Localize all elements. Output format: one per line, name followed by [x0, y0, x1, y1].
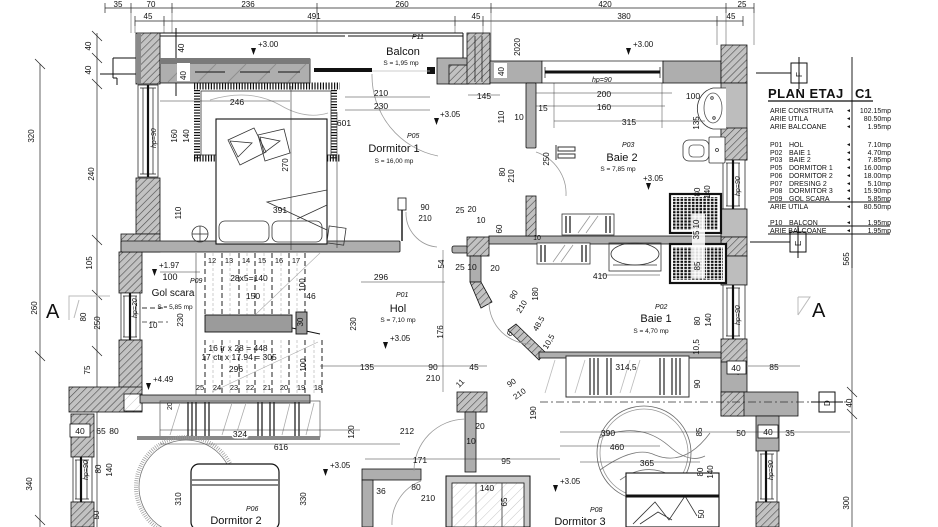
- svg-text:20: 20: [280, 383, 288, 392]
- svg-text:hp=90: hp=90: [735, 305, 742, 325]
- svg-text:10: 10: [533, 235, 541, 242]
- right wall mid: [721, 209, 747, 237]
- svg-text:80: 80: [109, 426, 119, 436]
- svg-text:90: 90: [693, 379, 702, 388]
- svg-text:50: 50: [736, 428, 746, 438]
- svg-text:10: 10: [514, 112, 524, 122]
- svg-text:46: 46: [306, 291, 316, 301]
- baie2 door swing: [536, 152, 566, 196]
- svg-text:601: 601: [337, 118, 351, 128]
- svg-text:100: 100: [686, 91, 700, 101]
- dormitor1 rug comb border: [194, 86, 340, 160]
- LEGEND: [768, 57, 891, 268]
- svg-text:85: 85: [769, 362, 779, 372]
- svg-text:18: 18: [314, 383, 322, 392]
- section box F: [756, 57, 807, 89]
- svg-text:80: 80: [94, 464, 103, 473]
- svg-text:365: 365: [640, 458, 654, 468]
- svg-text:110: 110: [174, 206, 183, 219]
- svg-text:102.15mp: 102.15mp: [860, 108, 891, 115]
- svg-text:25: 25: [738, 0, 747, 9]
- svg-text:17: 17: [292, 256, 300, 265]
- svg-text:E: E: [794, 241, 803, 246]
- svg-text:40: 40: [177, 43, 186, 52]
- svg-text:80.50mp: 80.50mp: [864, 204, 891, 211]
- bed dormitor1: [216, 119, 327, 244]
- svg-text:250: 250: [542, 152, 551, 166]
- svg-text:P03: P03: [770, 157, 783, 164]
- svg-text:◄: ◄: [846, 142, 851, 148]
- dormitor1 door swing: [406, 212, 437, 247]
- svg-text:70: 70: [147, 0, 156, 9]
- svg-text:+4.49: +4.49: [153, 375, 174, 384]
- svg-text:315: 315: [622, 117, 636, 127]
- section box E: [750, 226, 806, 258]
- svg-text:95: 95: [501, 456, 511, 466]
- svg-text:40: 40: [75, 426, 85, 436]
- stair landing: [205, 315, 292, 332]
- svg-text:◄: ◄: [846, 196, 851, 202]
- svg-text:210: 210: [421, 493, 435, 503]
- svg-text:15: 15: [538, 103, 548, 113]
- svg-text:314,5: 314,5: [615, 362, 637, 372]
- svg-text:S = 7,85 mp: S = 7,85 mp: [600, 166, 636, 173]
- dormitor2 door swing: [392, 481, 421, 525]
- dormitor3 circle fan: [597, 406, 710, 500]
- svg-text:hp=90: hp=90: [151, 128, 158, 148]
- wall corner block left: [121, 234, 160, 252]
- right wall lower: [721, 339, 747, 362]
- svg-text:40: 40: [731, 363, 741, 373]
- corridor wall stub vertical: [457, 392, 487, 412]
- svg-text:35: 35: [692, 230, 701, 239]
- svg-text:ARIE UTILA: ARIE UTILA: [770, 204, 808, 211]
- svg-text:100: 100: [299, 358, 308, 372]
- svg-text:420: 420: [598, 0, 612, 9]
- FURNITURE: [136, 71, 847, 527]
- interior dim lines: [160, 86, 850, 462]
- svg-text:Baie 1: Baie 1: [640, 313, 671, 325]
- svg-text:80: 80: [693, 187, 702, 196]
- svg-text:◄: ◄: [846, 188, 851, 194]
- svg-text:P01: P01: [770, 142, 783, 149]
- svg-text:20: 20: [475, 421, 485, 431]
- svg-text:250: 250: [93, 316, 102, 330]
- legend rules: [768, 201, 890, 203]
- svg-text:◄: ◄: [846, 165, 851, 171]
- svg-text:380: 380: [617, 12, 631, 21]
- svg-text:160: 160: [170, 129, 179, 143]
- svg-text:hp=90: hp=90: [592, 77, 612, 84]
- DIMS-TOP: [105, 0, 754, 392]
- STAIRS: [137, 253, 322, 440]
- baie2 toilet: [683, 140, 709, 161]
- section box D: [811, 392, 843, 412]
- dims bottom area: [233, 362, 795, 503]
- svg-text:1.95mp: 1.95mp: [868, 124, 891, 131]
- dim row1 line: [105, 7, 754, 9]
- window hp=90 right wall 2: [723, 285, 745, 339]
- svg-text:P02: P02: [770, 150, 783, 157]
- boxed 40 on wall right: [727, 361, 746, 374]
- hall diagonal lower: [508, 324, 545, 360]
- svg-text:19: 19: [297, 383, 305, 392]
- top-right corner pier: [721, 45, 747, 83]
- svg-text:22: 22: [246, 383, 254, 392]
- svg-text:340: 340: [25, 477, 34, 491]
- svg-text:330: 330: [299, 492, 308, 506]
- svg-text:23: 23: [230, 383, 238, 392]
- svg-text:7.85mp: 7.85mp: [868, 157, 891, 164]
- svg-text:80: 80: [696, 467, 705, 476]
- svg-text:+1.97: +1.97: [159, 261, 180, 270]
- svg-text:45: 45: [472, 12, 481, 21]
- door posts dormitor1: [398, 198, 406, 210]
- svg-text:hp=90: hp=90: [83, 460, 90, 480]
- svg-text:DRESING 2: DRESING 2: [789, 181, 827, 188]
- svg-text:S = 7,10 mp: S = 7,10 mp: [380, 317, 416, 324]
- svg-text:20: 20: [490, 263, 500, 273]
- svg-text:210: 210: [426, 373, 440, 383]
- svg-text:C1: C1: [855, 86, 872, 101]
- svg-text:D: D: [823, 400, 832, 406]
- svg-text:P01: P01: [396, 292, 409, 299]
- svg-text:25: 25: [455, 262, 465, 272]
- svg-text:135: 135: [692, 116, 701, 130]
- svg-text:246: 246: [230, 97, 244, 107]
- svg-text:60: 60: [495, 224, 504, 233]
- legend arrows: [846, 108, 851, 234]
- svg-text:ARIE BALCOANE: ARIE BALCOANE: [770, 124, 827, 131]
- svg-text:28x5=140: 28x5=140: [230, 273, 268, 283]
- stair bottom wall band: [140, 395, 310, 403]
- svg-text:324: 324: [233, 429, 247, 439]
- svg-text:25: 25: [196, 383, 204, 392]
- dim row2 numbers: [144, 12, 736, 21]
- svg-text:100: 100: [162, 272, 177, 282]
- stair left boundary: [195, 253, 197, 395]
- svg-text:410: 410: [593, 271, 607, 281]
- svg-text:P02: P02: [655, 304, 668, 311]
- svg-text:◄: ◄: [846, 181, 851, 187]
- svg-text:80: 80: [498, 167, 507, 176]
- svg-text:A: A: [46, 301, 60, 323]
- baie1 sink counter: [609, 243, 661, 271]
- svg-text:40: 40: [497, 67, 506, 76]
- svg-text:20: 20: [167, 402, 174, 410]
- svg-text:P07: P07: [770, 181, 783, 188]
- wall baie1/baie2 horizontal: [489, 236, 721, 244]
- svg-text:DORMITOR 2: DORMITOR 2: [789, 173, 833, 180]
- blanket fold: [267, 190, 327, 230]
- section line D dashed: [540, 401, 847, 403]
- svg-text:391: 391: [273, 205, 287, 215]
- svg-text:310: 310: [174, 492, 183, 506]
- interior wall dormitor1 bottom: [121, 241, 400, 252]
- window hp=90 right lower: [758, 451, 777, 502]
- wall bottom-left corner band: [69, 387, 142, 412]
- svg-text:171: 171: [413, 455, 427, 465]
- baie1 radiator: [537, 243, 590, 264]
- svg-text:80: 80: [79, 312, 88, 321]
- wall top band A (balcony back wall): [160, 59, 310, 83]
- svg-text:40: 40: [84, 41, 93, 50]
- svg-text:565: 565: [842, 252, 851, 266]
- svg-text:Dormitor 1: Dormitor 1: [368, 143, 419, 155]
- baie2 radiator: [562, 214, 614, 235]
- legend rows: [770, 108, 891, 235]
- dims top middle: [477, 89, 700, 127]
- svg-text:PLAN ETAJ: PLAN ETAJ: [768, 86, 844, 101]
- baie2 shower grid: [670, 194, 721, 233]
- svg-text:140: 140: [706, 465, 715, 479]
- svg-text:10,5: 10,5: [692, 339, 701, 355]
- dormitor3 bed: [626, 473, 719, 527]
- 40 labels inside balcony/wall: [177, 43, 186, 52]
- svg-text:S = 4,70 mp: S = 4,70 mp: [633, 328, 669, 335]
- svg-text:5.10mp: 5.10mp: [868, 181, 891, 188]
- svg-text:45: 45: [469, 362, 479, 372]
- svg-text:45: 45: [727, 12, 736, 21]
- rug swirls: [210, 95, 328, 142]
- svg-text:120: 120: [347, 425, 356, 439]
- hall left wall vertical: [470, 256, 481, 282]
- boxed 40 bottom right: [758, 425, 778, 438]
- stair texts: [162, 272, 316, 374]
- svg-text:230: 230: [176, 313, 185, 327]
- svg-text:16.00mp: 16.00mp: [864, 165, 891, 172]
- svg-text:17 ctr x 17.94 = 305: 17 ctr x 17.94 = 305: [201, 352, 277, 362]
- hall top hatch block: [467, 237, 489, 256]
- svg-text:75: 75: [83, 365, 92, 374]
- svg-text:P09: P09: [190, 278, 203, 285]
- window hp=90 right wall 1: [723, 160, 745, 209]
- svg-text:85: 85: [693, 261, 702, 270]
- svg-text:hp=90: hp=90: [768, 460, 775, 480]
- svg-text:80.50mp: 80.50mp: [864, 116, 891, 123]
- nightstand right: [327, 226, 346, 245]
- svg-text:80: 80: [411, 482, 421, 492]
- wall stub left of hall block: [452, 246, 468, 253]
- wardrobe band below stairs: [137, 401, 320, 440]
- pillows dormitor1: [228, 128, 266, 165]
- svg-text:+3.05: +3.05: [440, 110, 461, 119]
- svg-text:BAIE 2: BAIE 2: [789, 157, 811, 164]
- svg-text:135: 135: [360, 362, 374, 372]
- wall band C: [490, 61, 542, 83]
- dim col1 line: [39, 64, 41, 527]
- window Baie2 top: [542, 61, 663, 83]
- stair tread numbers upper: [208, 256, 300, 265]
- svg-text:+3.00: +3.00: [258, 40, 279, 49]
- svg-text:105: 105: [85, 256, 94, 270]
- col labels: [25, 41, 114, 519]
- right bottom corner band: [721, 392, 798, 416]
- svg-text:210: 210: [507, 169, 516, 183]
- svg-text:+3.05: +3.05: [330, 461, 351, 470]
- svg-text:160: 160: [597, 102, 611, 112]
- svg-text:65: 65: [500, 497, 509, 506]
- dims hol/diagonal: [360, 262, 607, 383]
- svg-text:◄: ◄: [846, 124, 851, 130]
- svg-text:P05: P05: [770, 165, 783, 172]
- svg-text:40: 40: [845, 398, 854, 407]
- svg-text:Gol scara: Gol scara: [152, 288, 195, 299]
- svg-text:Balcon: Balcon: [386, 46, 420, 58]
- svg-text:Hol: Hol: [390, 303, 407, 315]
- svg-text:21: 21: [263, 383, 271, 392]
- svg-text:◄: ◄: [846, 228, 851, 234]
- svg-text:BAIE 1: BAIE 1: [789, 150, 811, 157]
- svg-text:7.10mp: 7.10mp: [868, 142, 891, 149]
- legend divider line: [851, 57, 853, 268]
- svg-text:90: 90: [421, 203, 430, 212]
- svg-text:50: 50: [697, 509, 706, 518]
- svg-text:P08: P08: [770, 188, 783, 195]
- svg-text:25: 25: [456, 206, 465, 215]
- svg-text:80: 80: [693, 316, 702, 325]
- svg-text:90: 90: [428, 362, 438, 372]
- svg-text:◄: ◄: [846, 150, 851, 156]
- dresing closet 314,5: [545, 356, 689, 397]
- svg-text:16: 16: [275, 256, 283, 265]
- svg-text:◄: ◄: [846, 220, 851, 226]
- svg-text:F: F: [795, 72, 804, 77]
- dormitor3 closet: [446, 476, 530, 527]
- svg-text:20: 20: [468, 205, 477, 214]
- svg-text:176: 176: [436, 325, 445, 339]
- hall diagonal door swing: [489, 303, 531, 344]
- svg-text:S = 1,95 mp: S = 1,95 mp: [383, 60, 419, 67]
- svg-text:36: 36: [376, 486, 386, 496]
- svg-text:hp=20: hp=20: [132, 298, 139, 318]
- svg-text:180: 180: [531, 287, 540, 301]
- svg-text:210: 210: [374, 88, 388, 98]
- svg-text:+3.00: +3.00: [633, 40, 654, 49]
- balcony door threshold: [314, 68, 372, 72]
- svg-text:12: 12: [208, 256, 216, 265]
- svg-text:+3.05: +3.05: [560, 477, 581, 486]
- svg-text:P05: P05: [407, 133, 420, 140]
- svg-text:10: 10: [477, 216, 486, 225]
- svg-text:212: 212: [400, 426, 414, 436]
- wall top right of window: [663, 61, 721, 83]
- divider dormitor1/baie2: [526, 83, 536, 148]
- svg-text:P08: P08: [590, 507, 603, 514]
- svg-text:240: 240: [87, 167, 96, 181]
- dims dormitor1: [230, 88, 388, 215]
- svg-text:30: 30: [296, 317, 305, 326]
- svg-text:S = 16,00 mp: S = 16,00 mp: [375, 158, 414, 165]
- svg-text:+3.05: +3.05: [390, 334, 411, 343]
- svg-text:296: 296: [229, 364, 243, 374]
- svg-text:ARIE UTILA: ARIE UTILA: [770, 116, 808, 123]
- svg-text:190: 190: [529, 406, 538, 420]
- svg-text:270: 270: [281, 158, 290, 172]
- dormitor2 circle: [139, 440, 233, 527]
- svg-text:210: 210: [418, 214, 432, 223]
- dims baie1 right column: [533, 185, 713, 389]
- svg-text:150: 150: [246, 291, 260, 301]
- svg-text:460: 460: [610, 442, 624, 452]
- svg-text:110: 110: [497, 110, 506, 123]
- svg-text:◄: ◄: [846, 204, 851, 210]
- svg-text:390: 390: [601, 428, 615, 438]
- svg-text:230: 230: [349, 317, 358, 331]
- dormitor3 door swing: [414, 419, 465, 471]
- svg-text:140: 140: [105, 463, 114, 477]
- baie1 shower grid: [670, 244, 726, 283]
- dormitor2/3 divider walls: [362, 469, 421, 480]
- svg-text:13: 13: [225, 256, 233, 265]
- svg-text:HOL: HOL: [789, 142, 804, 149]
- window hp=90 left lower: [73, 457, 92, 502]
- svg-text:35: 35: [114, 0, 123, 9]
- window hp=90 left wall: [138, 85, 158, 177]
- boxed 40 bottom left: [70, 424, 90, 437]
- svg-text:140: 140: [704, 313, 713, 327]
- svg-text:14: 14: [242, 256, 250, 265]
- svg-text:2020: 2020: [513, 38, 522, 56]
- svg-text:+3.05: +3.05: [643, 174, 664, 183]
- svg-text:10: 10: [149, 321, 158, 330]
- svg-text:15.90mp: 15.90mp: [864, 188, 891, 195]
- svg-text:ARIE CONSTRUITA: ARIE CONSTRUITA: [770, 108, 834, 115]
- svg-text:hp=90: hp=90: [735, 176, 742, 196]
- dim row2 line: [135, 20, 743, 22]
- svg-text:P06: P06: [770, 173, 783, 180]
- balcony door swing: [372, 74, 438, 156]
- svg-text:◄: ◄: [846, 116, 851, 122]
- svg-text:140: 140: [703, 185, 712, 199]
- svg-text:260: 260: [395, 0, 409, 9]
- svg-text:10: 10: [466, 436, 476, 446]
- wall left above bottom corner: [119, 340, 142, 390]
- svg-text:P03: P03: [622, 142, 635, 149]
- dresing top band: [539, 352, 721, 358]
- svg-text:300: 300: [842, 496, 851, 510]
- wall band B right of balcony: [437, 58, 468, 84]
- svg-text:Dormitor 3: Dormitor 3: [554, 516, 605, 527]
- svg-text:200: 200: [597, 89, 611, 99]
- top center pier: [467, 33, 490, 84]
- svg-text:616: 616: [274, 442, 288, 452]
- dim col2 line: [96, 33, 98, 527]
- svg-text:236: 236: [241, 0, 255, 9]
- svg-text:260: 260: [30, 301, 39, 315]
- svg-text:Dormitor 2: Dormitor 2: [210, 515, 261, 527]
- stair tread numbers lower: [196, 383, 322, 392]
- svg-text:4.70mp: 4.70mp: [868, 150, 891, 157]
- svg-text:DORMITOR 3: DORMITOR 3: [789, 188, 833, 195]
- svg-text:◄: ◄: [846, 108, 851, 114]
- wall left bottom piece: [71, 502, 94, 527]
- svg-text:140: 140: [182, 129, 191, 143]
- svg-text:230: 230: [374, 101, 388, 111]
- svg-text:P11: P11: [412, 34, 424, 41]
- svg-text:65: 65: [96, 426, 106, 436]
- svg-text:296: 296: [374, 272, 388, 282]
- svg-text:A: A: [812, 300, 826, 322]
- right wall upper: [721, 83, 747, 160]
- WALLS: [69, 28, 798, 527]
- stair upper flight treads: [205, 253, 305, 315]
- svg-text:145: 145: [477, 91, 491, 101]
- right wall below corner: [756, 416, 779, 451]
- svg-text:100: 100: [298, 278, 307, 292]
- baie2 sink: [697, 88, 726, 129]
- svg-text:45: 45: [144, 12, 153, 21]
